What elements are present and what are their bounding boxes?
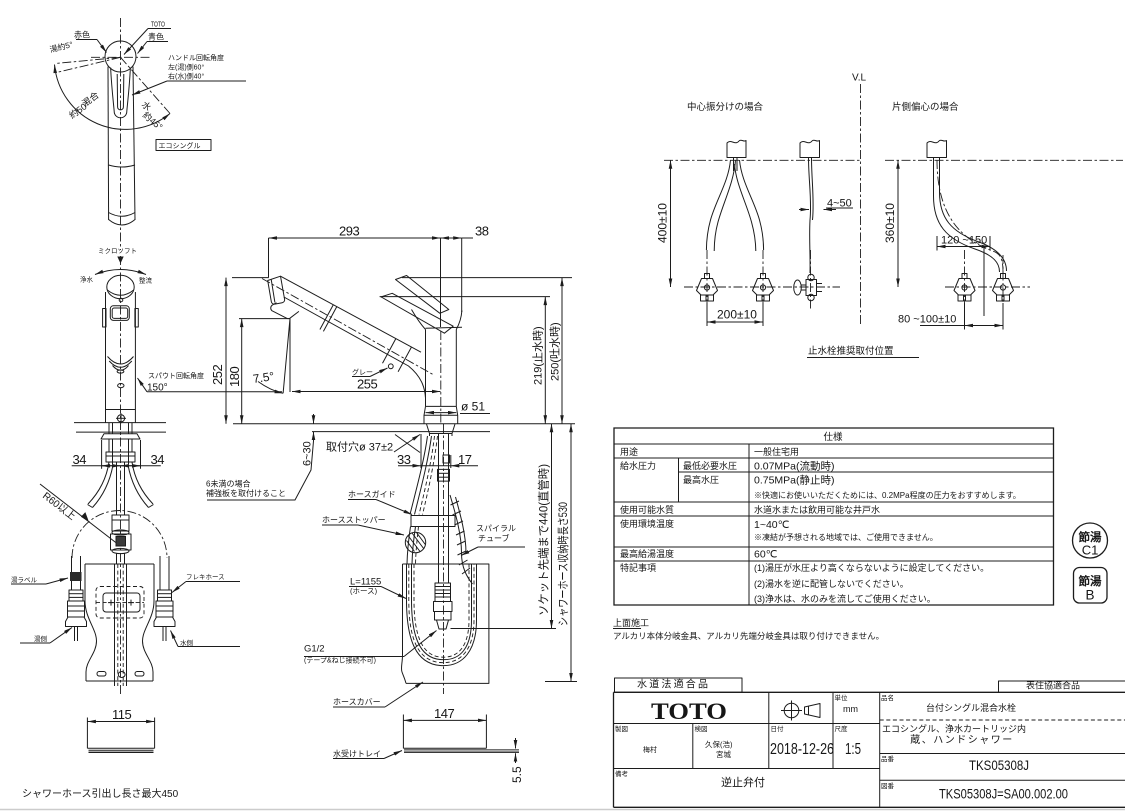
spout lower edge <box>284 297 426 398</box>
socket band <box>435 612 452 621</box>
supply curve left outer <box>706 160 730 250</box>
dim 115 <box>87 721 154 723</box>
socket threaded <box>435 583 451 602</box>
body left edge <box>105 292 107 423</box>
swivel arc arrow <box>95 270 146 275</box>
block outer borders <box>614 691 1125 693</box>
hose cover box front <box>85 563 154 565</box>
svg-text:スパイラル: スパイラル <box>476 524 516 533</box>
top extension line right <box>402 277 572 279</box>
svg-text:日付: 日付 <box>771 724 785 733</box>
hose cover box side <box>403 564 489 683</box>
hole edge extension <box>420 434 422 468</box>
svg-text:400±10: 400±10 <box>656 203 670 243</box>
svg-text:TOTO: TOTO <box>651 699 727 724</box>
radius line hot 5deg lower <box>57 57 121 72</box>
svg-text:※快適にお使いいただくためには、0.2MPa程度の圧力をおす: ※快適にお使いいただくためには、0.2MPa程度の圧力をおすすめします。 <box>754 490 1021 500</box>
socket tip <box>437 620 449 629</box>
svg-text:ホースカバー: ホースカバー <box>333 698 381 707</box>
radius line hot 5deg upper <box>56 57 121 63</box>
supply curve left inner <box>714 160 735 251</box>
svg-text:仕様: 仕様 <box>823 431 843 443</box>
svg-text:0.07MPa(流動時): 0.07MPa(流動時) <box>754 460 835 473</box>
svg-text:2018-12-26: 2018-12-26 <box>770 741 834 758</box>
svg-text:ミクロソフト: ミクロソフト <box>98 247 137 255</box>
R60以上 leader <box>40 484 119 545</box>
grip end joint <box>398 347 411 372</box>
dim 17 <box>451 465 478 467</box>
shank nut below counter <box>427 424 456 434</box>
svg-text:左(湯)側60°: 左(湯)側60° <box>168 63 204 72</box>
svg-text:5.5: 5.5 <box>510 766 524 783</box>
left wing <box>103 309 106 328</box>
dim 33 <box>398 465 421 467</box>
svg-text:7.5°: 7.5° <box>252 369 275 386</box>
dim 5.5 <box>515 738 517 749</box>
left flexi hose <box>71 556 73 590</box>
svg-text:219(止水時): 219(止水時) <box>532 326 545 385</box>
svg-text:17: 17 <box>458 452 472 467</box>
svg-text:節湯: 節湯 <box>1078 574 1102 588</box>
svg-text:V.L: V.L <box>852 73 867 84</box>
svg-text:右(水)側40°: 右(水)側40° <box>168 72 204 81</box>
bracket centerline <box>96 602 144 604</box>
base ring <box>424 406 458 423</box>
svg-text:60℃: 60℃ <box>754 549 778 561</box>
svg-text:シャワーホース収納時長さ530: シャワーホース収納時長さ530 <box>557 502 570 626</box>
head cap ellipse <box>107 275 134 298</box>
svg-text:片側偏心の場合: 片側偏心の場合 <box>892 101 959 113</box>
bracket cross marks <box>108 600 114 606</box>
right supply hose <box>132 462 153 504</box>
svg-text:浄水: 浄水 <box>80 275 94 284</box>
svg-text:湯側: 湯側 <box>34 634 48 643</box>
svg-text:ホースストッパー: ホースストッパー <box>322 516 386 525</box>
svg-text:宮城: 宮城 <box>716 749 731 759</box>
spout joint band 2 <box>383 339 396 364</box>
aerator bump <box>271 303 299 319</box>
svg-text:147: 147 <box>434 706 454 721</box>
dim 180 extension <box>239 318 290 320</box>
U-loop dashed lines <box>409 564 474 663</box>
base joint line <box>106 409 136 411</box>
svg-text:品名: 品名 <box>881 693 894 702</box>
svg-text:mm: mm <box>843 704 858 714</box>
pipe to left valve <box>934 158 1000 272</box>
cell dividers <box>768 692 770 768</box>
dim 400 <box>670 160 672 287</box>
svg-text:250(吐水時): 250(吐水時) <box>549 322 562 381</box>
dim 6-30 arrows <box>313 414 315 424</box>
svg-text:整流: 整流 <box>139 276 153 285</box>
svg-text:34: 34 <box>73 452 87 467</box>
svg-text:34: 34 <box>151 452 165 467</box>
dim extension axis <box>440 238 442 327</box>
svg-text:180: 180 <box>227 367 242 387</box>
shank symbol 3 <box>927 140 947 157</box>
svg-text:久保(浩): 久保(浩) <box>705 739 733 749</box>
valve chain horizontal right <box>945 286 1030 288</box>
dim 360 <box>897 160 899 287</box>
svg-text:用途: 用途 <box>620 446 638 457</box>
dim 219 <box>544 297 546 424</box>
svg-text:中心振分けの場合: 中心振分けの場合 <box>687 101 764 113</box>
svg-text:(3)浄水は、水のみを流してご使用ください。: (3)浄水は、水のみを流してご使用ください。 <box>754 593 936 604</box>
svg-text:TOTO: TOTO <box>151 20 165 29</box>
counter line top <box>74 422 166 424</box>
row line 最高給湯温度 <box>614 560 1054 562</box>
body cap bottom <box>426 327 463 328</box>
svg-text:G1/2: G1/2 <box>304 644 325 655</box>
connector block <box>112 515 129 531</box>
svg-text:使用可能水質: 使用可能水質 <box>620 504 674 515</box>
svg-text:ホースガイド: ホースガイド <box>348 489 396 499</box>
svg-text:水側: 水側 <box>180 638 194 647</box>
spray button <box>388 364 393 369</box>
svg-text:TKS05308J=SA00.002.00: TKS05308J=SA00.002.00 <box>939 786 1068 802</box>
valve chain horizontal <box>684 286 840 288</box>
svg-text:※凍結が予想される地域では、ご使用できません。: ※凍結が予想される地域では、ご使用できません。 <box>754 532 938 542</box>
shank symbol 1 <box>727 140 746 157</box>
svg-text:補強板を取付けること: 補強板を取付けること <box>206 488 286 498</box>
top extension line left <box>232 277 269 279</box>
svg-text:品番: 品番 <box>881 755 895 763</box>
projection symbol cone <box>805 704 821 718</box>
svg-text:単位: 単位 <box>835 693 849 702</box>
shank below flange <box>108 439 110 452</box>
valve chain verticals right <box>964 250 966 303</box>
chain curve axis <box>937 160 1003 273</box>
counter chain line <box>664 159 862 161</box>
hose stopper <box>405 532 425 552</box>
svg-text:6未満の場合: 6未満の場合 <box>206 479 250 489</box>
svg-text:チューブ: チューブ <box>478 533 510 543</box>
extension vertical mid <box>983 248 985 316</box>
dim 7.5 slant leg <box>283 319 290 394</box>
svg-text:エコシングル、浄水カートリッジ内: エコシングル、浄水カートリッジ内 <box>882 723 1026 734</box>
svg-text:115: 115 <box>112 707 131 722</box>
column left <box>425 330 427 407</box>
second extension line <box>380 296 550 298</box>
header row line <box>614 443 1054 445</box>
stamp 節湯C1 <box>1073 523 1108 558</box>
svg-text:最高給湯温度: 最高給湯温度 <box>620 548 674 559</box>
handle knob circle <box>105 41 136 72</box>
tube into box <box>116 553 118 564</box>
escutcheon flange <box>101 434 140 439</box>
socket leader line <box>451 628 557 630</box>
shank symbol 2 <box>800 140 820 157</box>
spout joint arcs <box>108 357 134 365</box>
column divider main <box>748 444 750 605</box>
body cap left curve <box>412 310 426 330</box>
spout end ellipse <box>109 213 135 217</box>
svg-text:赤色: 赤色 <box>74 30 90 40</box>
counter line <box>233 423 575 425</box>
spiral tube <box>450 495 473 584</box>
display window outer <box>110 306 129 321</box>
counter line bottom <box>76 431 166 433</box>
svg-text:C1: C1 <box>1082 543 1099 558</box>
left supply hose <box>88 462 109 504</box>
svg-text:200±10: 200±10 <box>717 308 757 322</box>
dim 7.5 arc <box>258 382 283 394</box>
dim 440 socket <box>551 424 553 629</box>
dim 252 <box>225 278 227 424</box>
hose guide <box>411 516 455 527</box>
svg-text:ソケット先端まで440(直管時): ソケット先端まで440(直管時) <box>537 464 551 616</box>
svg-text:逆止弁付: 逆止弁付 <box>721 775 765 789</box>
lever upper blade <box>396 276 449 314</box>
column base line <box>426 405 457 407</box>
valve side view <box>794 274 822 300</box>
dim 530 shower hose <box>570 424 572 682</box>
svg-text:特記事項: 特記事項 <box>620 562 656 573</box>
projection symbol circle <box>784 703 799 718</box>
svg-text:取付穴ø 37±2: 取付穴ø 37±2 <box>326 440 393 454</box>
shank nut <box>106 452 135 462</box>
row line 用途 <box>614 457 1054 459</box>
small oval <box>118 384 124 388</box>
display window inner <box>112 308 128 318</box>
spout joint band 1 <box>320 305 333 330</box>
dim 250 <box>561 278 563 424</box>
svg-text:最低必要水圧: 最低必要水圧 <box>683 460 737 471</box>
svg-text:表住協適合品: 表住協適合品 <box>1026 680 1080 691</box>
svg-text:蔵、ハンドシャワー: 蔵、ハンドシャワー <box>910 733 1014 746</box>
svg-text:尺度: 尺度 <box>835 724 849 733</box>
small fitting <box>443 455 450 463</box>
svg-text:293: 293 <box>339 224 359 239</box>
spout tube right edge <box>133 67 135 221</box>
nozzle cap inner line <box>271 279 275 302</box>
svg-text:(1)湯圧が水圧より高くならないように設定してください。: (1)湯圧が水圧より高くならないように設定してください。 <box>754 562 989 573</box>
check valve unit <box>112 530 129 535</box>
svg-text:B: B <box>1085 588 1094 603</box>
tab 表住協適合品 <box>999 681 1125 692</box>
spout axis <box>262 279 433 375</box>
bracket inner rect <box>103 593 140 612</box>
svg-text:フレキホース: フレキホース <box>186 573 225 581</box>
svg-text:80 ~100±10: 80 ~100±10 <box>898 314 956 326</box>
svg-text:水道水または飲用可能な井戸水: 水道水または飲用可能な井戸水 <box>754 504 880 515</box>
svg-text:1:5: 1:5 <box>845 741 861 758</box>
dim 180 <box>241 319 243 424</box>
column divider sub <box>678 458 680 502</box>
lever lower blade <box>381 293 453 333</box>
table frame <box>614 428 1054 605</box>
dim 293 extension left <box>268 238 270 277</box>
svg-text:33: 33 <box>397 452 411 467</box>
column right <box>455 330 457 407</box>
right wing <box>135 309 138 328</box>
svg-text:製図: 製図 <box>615 724 628 733</box>
tray side <box>402 715 404 749</box>
note 上面施工 <box>613 617 884 641</box>
box bottom slots <box>97 672 106 677</box>
svg-text:1~40℃: 1~40℃ <box>754 519 790 531</box>
svg-text:止水栓推奨取付位置: 止水栓推奨取付位置 <box>808 345 894 357</box>
dim 4-50 <box>799 209 809 211</box>
row line 最低必要水圧 <box>679 471 1054 473</box>
svg-text:グレー: グレー <box>352 368 373 377</box>
dim 147 <box>403 719 486 721</box>
body right edge <box>134 292 136 423</box>
center tube <box>116 462 118 515</box>
svg-text:エコシングル: エコシングル <box>159 141 201 150</box>
svg-text:水道法適合品: 水道法適合品 <box>637 678 710 691</box>
spout joint line <box>109 165 135 167</box>
supply curve right outer <box>740 160 764 250</box>
svg-text:梅村: 梅村 <box>643 745 657 754</box>
supply hoses slanting <box>410 436 428 515</box>
row1/row2 line <box>614 723 880 725</box>
dim 255 <box>292 391 441 393</box>
spout upper edge <box>281 276 422 352</box>
body cap right curve <box>456 311 462 330</box>
row2/row3 line <box>614 768 880 770</box>
R60 clearance arc <box>72 511 167 558</box>
counter chain line right <box>885 159 1123 161</box>
row line 給水圧力 bottom <box>614 501 1054 503</box>
socket nut <box>434 602 453 612</box>
drain oval <box>118 672 125 678</box>
sheet bottom edge <box>0 809 1125 811</box>
stop valve left <box>697 274 718 302</box>
tray front <box>86 718 88 749</box>
handle inner detail <box>117 74 124 110</box>
svg-text:図番: 図番 <box>881 782 895 790</box>
V.L line <box>860 84 862 326</box>
svg-text:一般住宅用: 一般住宅用 <box>754 446 799 457</box>
handle lever taper <box>111 68 131 118</box>
stop valve right <box>753 274 774 302</box>
supply curve right inner <box>735 164 756 251</box>
svg-text:38: 38 <box>475 224 489 239</box>
side pipe <box>809 158 811 274</box>
svg-text:120 ~150: 120 ~150 <box>941 235 987 247</box>
dim 38 <box>441 237 462 239</box>
angle arc <box>55 65 171 130</box>
svg-text:252: 252 <box>210 365 225 385</box>
svg-text:使用環境温度: 使用環境温度 <box>620 518 674 529</box>
leader to note <box>207 441 314 500</box>
right flexi hose <box>159 556 161 590</box>
row line 使用可能水質 <box>614 515 1054 517</box>
valve chain verticals <box>706 250 708 303</box>
spout tube left edge <box>107 67 110 221</box>
dim 80-100 <box>965 325 1004 327</box>
svg-text:アルカリ本体分岐金具、アルカリ先端分岐金具は取り付けできませ: アルカリ本体分岐金具、アルカリ先端分岐金具は取り付けできません。 <box>613 631 884 641</box>
dim 120-150 <box>937 246 990 248</box>
bracket dashed rect <box>96 587 144 619</box>
U-loop hose outer <box>407 564 477 666</box>
pipe to right valve <box>940 158 1007 271</box>
svg-text:(2)湯水を逆に配管しないでください。: (2)湯水を逆に配管しないでください。 <box>754 578 909 589</box>
svg-text:上面施工: 上面施工 <box>613 617 649 628</box>
svg-text:シャワーホース引出し長さ最大450: シャワーホース引出し長さ最大450 <box>22 787 179 800</box>
dim phi51 <box>426 412 457 414</box>
svg-text:最高水圧: 最高水圧 <box>683 474 719 485</box>
eco single box <box>156 140 211 151</box>
svg-text:備考: 備考 <box>615 769 629 778</box>
U-loop hose inner <box>412 564 472 660</box>
shower hose vertical <box>438 434 440 583</box>
svg-text:スパウト回転角度: スパウト回転角度 <box>148 371 204 380</box>
dim 293 <box>269 237 441 239</box>
spout nozzle cap <box>268 276 285 304</box>
svg-text:給水圧力: 給水圧力 <box>620 460 656 471</box>
svg-text:水受けトレイ: 水受けトレイ <box>333 749 381 759</box>
svg-text:検図: 検図 <box>695 724 708 733</box>
svg-text:0.75MPa(静止時): 0.75MPa(静止時) <box>754 474 835 487</box>
stop valve 3 <box>954 274 975 302</box>
svg-text:青色: 青色 <box>148 32 164 42</box>
set screw <box>117 415 124 422</box>
svg-text:ハンドル回転角度: ハンドル回転角度 <box>168 53 224 62</box>
row line 使用環境温度 <box>614 546 1054 548</box>
tab 水道法適合品 <box>615 678 743 692</box>
radius line water 45deg <box>121 57 171 113</box>
dim 7.5 vertical leg <box>289 319 291 392</box>
hose coupling band <box>438 469 450 481</box>
svg-text:360±10: 360±10 <box>883 203 897 243</box>
svg-text:(ホース): (ホース) <box>350 587 378 596</box>
stop valve 4 <box>993 274 1014 302</box>
dim 200 <box>707 321 763 323</box>
column centerline <box>440 331 442 424</box>
centerline vertical <box>120 18 122 250</box>
hose bundle in box <box>114 564 116 686</box>
svg-text:255: 255 <box>357 377 377 392</box>
svg-text:湯ラベル: 湯ラベル <box>11 575 38 584</box>
down arrow <box>117 257 123 264</box>
svg-text:台付シングル混合水栓: 台付シングル混合水栓 <box>926 702 1016 713</box>
stamp 節湯B <box>1074 568 1108 604</box>
head button <box>119 298 123 302</box>
svg-text:TKS05308J: TKS05308J <box>969 757 1029 773</box>
svg-text:ø 51: ø 51 <box>461 400 485 414</box>
head seam arc <box>107 290 133 295</box>
dim extension lever back <box>461 238 463 312</box>
centerline <box>120 256 122 695</box>
shank lines above flange <box>108 423 110 434</box>
counter bottom line <box>312 431 490 433</box>
dim 34-34 <box>72 465 161 467</box>
centerline horizontal <box>91 56 152 58</box>
